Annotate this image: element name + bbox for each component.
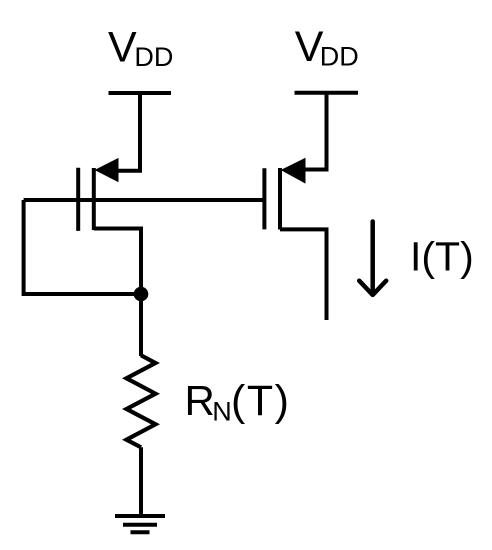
wire VDD right to M2 source bbox=[304, 93, 327, 170]
wire node A to resistor bbox=[139, 294, 143, 356]
transistor M1 (PMOS, diode-connected) bbox=[78, 158, 118, 231]
svg-text:N: N bbox=[212, 396, 232, 426]
label RN(T) bbox=[185, 377, 291, 426]
wire VDD left to M1 source bbox=[117, 93, 140, 171]
supply bar VDD left bbox=[109, 91, 172, 95]
ground bbox=[115, 516, 165, 532]
wire M2 drain output bbox=[280, 229, 327, 320]
svg-text:DD: DD bbox=[134, 42, 173, 72]
wire resistor to ground bbox=[139, 447, 143, 516]
wire gate feedback (diode connection) bbox=[24, 200, 141, 294]
wire gate bus M1 to M2 bbox=[24, 198, 265, 202]
label VDD right bbox=[295, 23, 359, 72]
node A (junction dot) bbox=[134, 287, 149, 302]
svg-text:R: R bbox=[185, 377, 215, 424]
resistor RN(T) bbox=[127, 355, 156, 447]
wire M1 drain to node A bbox=[94, 229, 141, 295]
svg-text:(T): (T) bbox=[231, 377, 290, 425]
supply bar VDD right bbox=[295, 91, 359, 95]
label VDD left bbox=[108, 23, 173, 72]
svg-text:V: V bbox=[108, 23, 137, 71]
svg-text:I(T): I(T) bbox=[410, 233, 474, 279]
svg-text:DD: DD bbox=[320, 42, 359, 72]
transistor M2 (PMOS) bbox=[264, 158, 305, 230]
current arrow I(T) bbox=[359, 222, 386, 295]
